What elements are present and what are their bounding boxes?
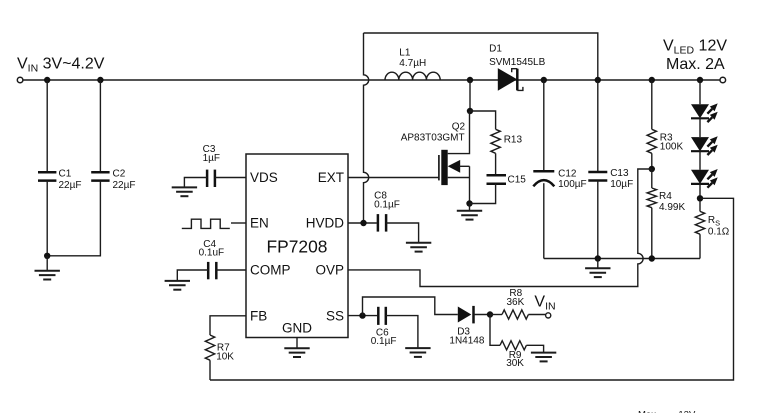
ground output	[585, 268, 610, 277]
LED D2b	[699, 118, 701, 137]
svg-text:0.1µF: 0.1µF	[371, 336, 397, 347]
node C13 junction	[595, 77, 601, 83]
svg-text:FP7208: FP7208	[267, 237, 328, 257]
svg-text:HVDD: HVDD	[306, 216, 345, 231]
svg-text:12V: 12V	[678, 409, 696, 413]
IC U1 FP7208 box	[246, 154, 348, 338]
svg-text:Max.: Max.	[638, 409, 659, 413]
svg-text:100µF: 100µF	[558, 179, 587, 190]
svg-text:Q2: Q2	[452, 121, 466, 132]
svg-text:0.1Ω: 0.1Ω	[708, 226, 730, 237]
node switch node	[467, 77, 473, 83]
svg-text:FB: FB	[250, 309, 267, 324]
node R3/R4 junction	[649, 166, 655, 172]
diode D1 SVM1545LB	[498, 68, 517, 91]
LED D2c	[699, 151, 701, 170]
svg-text:VDS: VDS	[250, 170, 278, 185]
node ground rail C13 junction	[595, 255, 601, 261]
svg-text:R4: R4	[659, 191, 672, 202]
wire OVP sense path	[348, 169, 652, 287]
svg-text:C1: C1	[59, 168, 72, 179]
svg-text:100K: 100K	[660, 141, 684, 152]
wire ground stub	[597, 259, 599, 269]
capacitor C6	[377, 307, 380, 325]
svg-text:EXT: EXT	[318, 170, 344, 185]
svg-text:1N4148: 1N4148	[449, 335, 484, 346]
svg-text:C12: C12	[558, 168, 577, 179]
svg-text:4.99K: 4.99K	[659, 202, 685, 213]
node VLED output terminal	[720, 77, 726, 83]
node VIN aux terminal	[546, 313, 551, 318]
capacitor C13	[597, 80, 599, 172]
svg-text:VLED 12V: VLED 12V	[663, 37, 727, 56]
ground Q2	[457, 211, 482, 220]
wire VIN rail	[23, 79, 720, 81]
resistor R7	[205, 335, 214, 360]
resistor R13	[470, 111, 496, 129]
wire HVDD supply left vertical with hops	[364, 33, 369, 223]
svg-text:Max. 2A: Max. 2A	[666, 56, 725, 73]
capacitor C2	[99, 80, 101, 172]
ground C6	[405, 348, 430, 357]
svg-text:AP83T03GMT: AP83T03GMT	[401, 133, 465, 144]
resistor R4	[651, 169, 653, 188]
wire HVDD supply loop top	[364, 33, 598, 80]
wire SS stub	[348, 315, 377, 317]
svg-text:R13: R13	[504, 135, 523, 146]
resistor R3	[651, 80, 653, 129]
svg-text:EN: EN	[250, 216, 269, 231]
wire ground stub	[46, 256, 48, 271]
ground IC GND	[284, 348, 309, 357]
node drain/snubber junction	[467, 108, 473, 114]
svg-text:C13: C13	[610, 168, 629, 179]
resistor R9	[490, 315, 500, 346]
wire EN stub	[231, 222, 246, 224]
node VIN input terminal	[17, 77, 23, 83]
wire GND pin stub	[296, 338, 298, 349]
svg-text:4.7µH: 4.7µH	[399, 58, 426, 69]
node C1 junction	[44, 77, 50, 83]
svg-text:OVP: OVP	[315, 263, 344, 278]
svg-text:30K: 30K	[506, 358, 524, 369]
svg-text:SVM1545LB: SVM1545LB	[489, 57, 545, 68]
LED D2a	[699, 80, 701, 104]
node HVDD junction	[360, 220, 366, 226]
wire stub	[469, 204, 471, 211]
node sense junction	[697, 195, 703, 201]
svg-text:COMP: COMP	[250, 263, 291, 278]
capacitor C12	[543, 80, 545, 171]
ground C3	[172, 187, 197, 196]
diode D3 1N4148	[458, 307, 472, 323]
EN clock waveform symbol	[182, 219, 230, 228]
ground C8	[406, 243, 431, 252]
node D3 cathode junction	[487, 311, 493, 317]
svg-text:22µF: 22µF	[59, 180, 82, 191]
wire switch node drop	[469, 80, 471, 111]
wire LED to sense node	[699, 183, 701, 211]
wire SS to D3 jog	[363, 297, 458, 316]
wire feedback from sense node to bottom rail	[210, 198, 734, 380]
svg-text:0.1µF: 0.1µF	[374, 200, 400, 211]
svg-text:36K: 36K	[507, 297, 525, 308]
inductor L1	[385, 72, 440, 80]
node SS junction	[359, 312, 365, 318]
wire EXT to gate	[348, 177, 439, 179]
wire ground rail	[544, 258, 700, 260]
node LED junction	[697, 77, 703, 83]
ground C1/C2	[35, 271, 60, 280]
svg-text:C2: C2	[113, 168, 126, 179]
wire HVDD stub	[348, 222, 377, 224]
svg-text:SS: SS	[326, 309, 344, 324]
capacitor C1	[46, 80, 48, 172]
svg-text:10µF: 10µF	[610, 179, 633, 190]
ground C4	[165, 281, 190, 290]
svg-text:GND: GND	[282, 321, 312, 336]
resistor Rs	[695, 211, 704, 234]
ground R9	[531, 353, 556, 362]
node source/ground junction	[466, 200, 472, 206]
svg-text:C15: C15	[508, 174, 527, 185]
node R3 junction	[649, 77, 655, 83]
svg-text:D1: D1	[489, 44, 502, 55]
svg-text:L1: L1	[399, 47, 411, 58]
svg-text:0.1uF: 0.1uF	[199, 248, 225, 259]
svg-text:22µF: 22µF	[113, 180, 136, 191]
node C12 junction	[541, 77, 547, 83]
capacitor C15	[487, 174, 507, 177]
wire FB to R7	[210, 316, 246, 335]
svg-text:10K: 10K	[216, 352, 234, 363]
node C1/C2 ground junction	[44, 253, 50, 259]
node R4 ground junction	[649, 255, 655, 261]
resistor R8	[490, 314, 502, 316]
svg-text:1µF: 1µF	[203, 153, 220, 164]
node C2 junction	[97, 77, 103, 83]
